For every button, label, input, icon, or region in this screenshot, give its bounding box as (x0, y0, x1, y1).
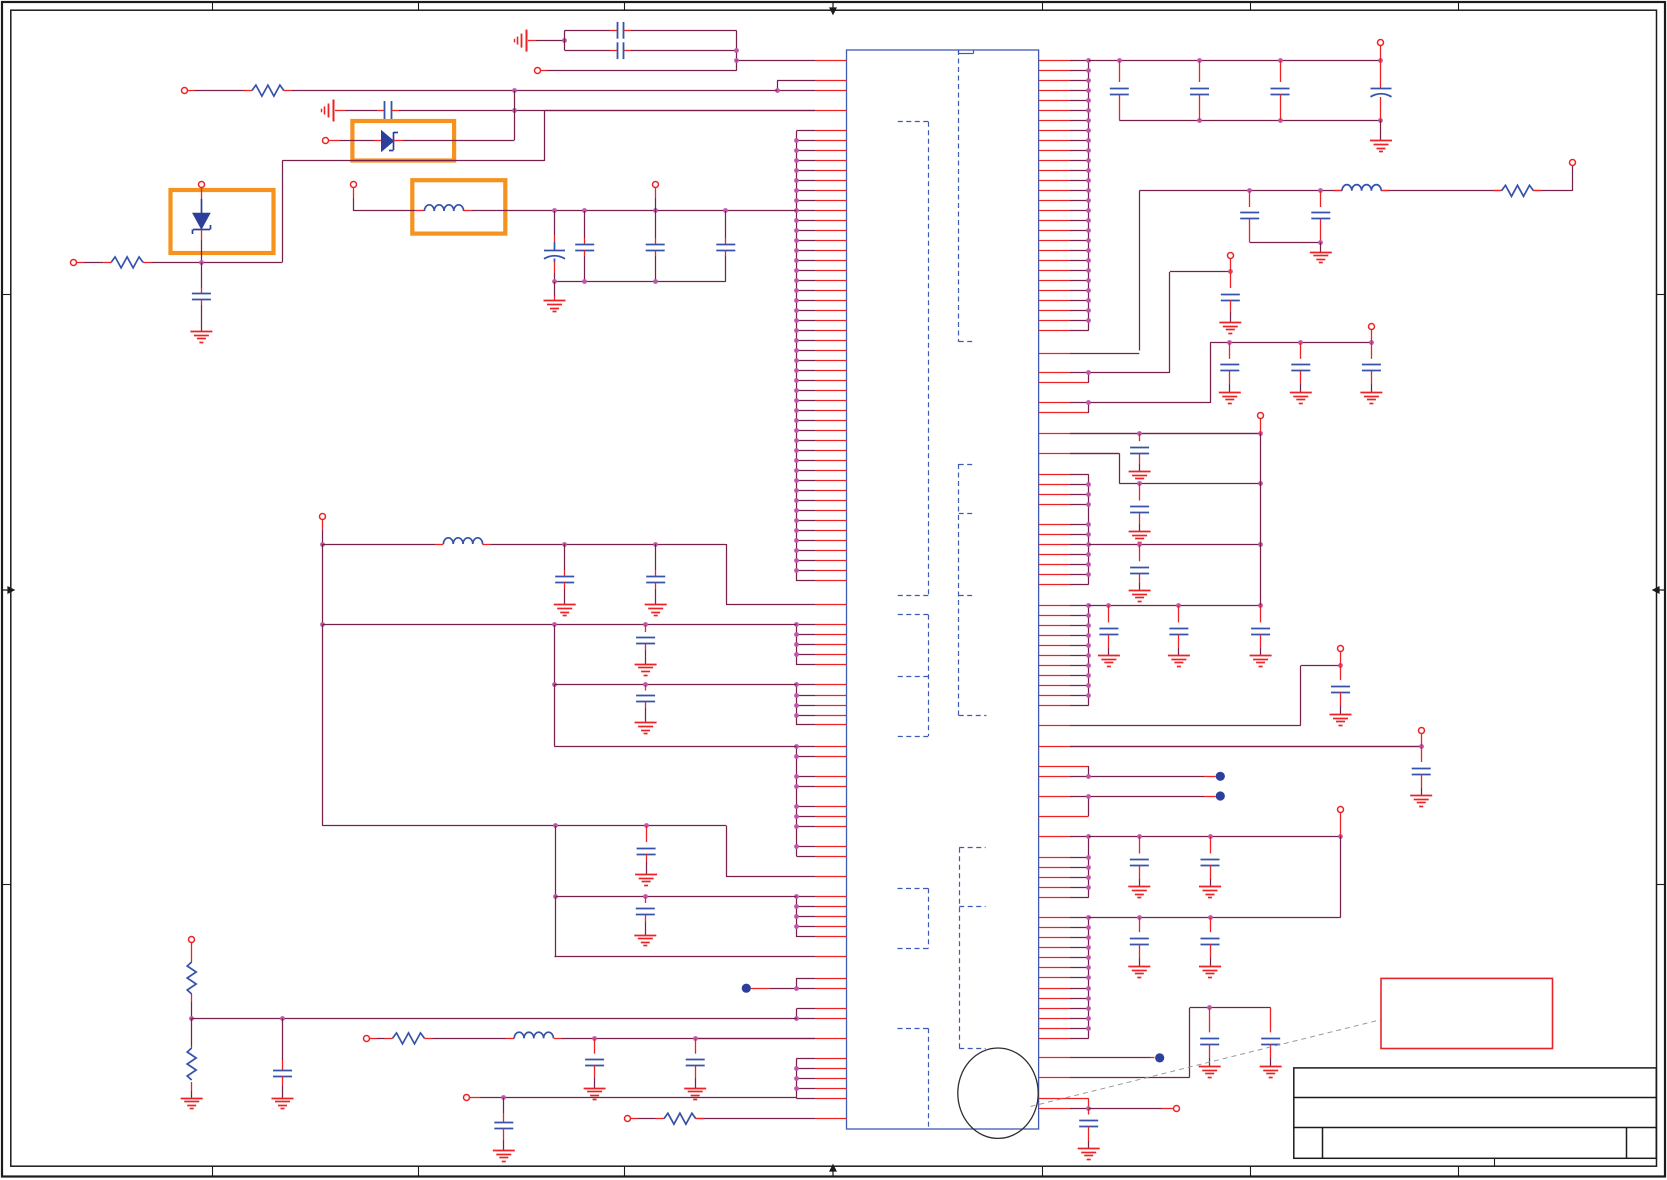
chassis ground symbol CH1 (526, 30, 528, 52)
wire pin P16 drop (655, 187, 657, 198)
U1 left pins L0 top (60/80/90/110) (545, 61, 847, 111)
wire resistor to TVS node (151, 262, 282, 264)
capacitor C25 (1079, 1109, 1098, 1149)
capacitor C16 (1251, 605, 1270, 655)
resistor R6 (vertical) (187, 1018, 196, 1098)
connector pin P4 (1369, 324, 1375, 330)
capacitor C37 (636, 897, 655, 935)
bottom border zone ticks (212, 1166, 214, 1176)
capacitor C11 (1130, 433, 1149, 471)
U1 right pin group R6 (917-1038) with bus (1039, 915, 1091, 1038)
ground symbol G14 (1410, 795, 1432, 797)
top center arrow (830, 3, 836, 14)
wire cap to U1 pin 110 (514, 110, 544, 112)
ground symbol G32 (584, 1088, 606, 1090)
inductor L2 (1334, 190, 1342, 192)
resistor R5 (vertical) (187, 943, 196, 1019)
U1 left single pins with long wires (555, 605, 847, 957)
wire rail net upper (1089, 834, 1343, 839)
capacitor C29 (575, 211, 594, 282)
IC internal dashed divider 2 (middle) (958, 464, 960, 716)
ellipse marker on IC bottom (958, 1048, 1038, 1138)
resistor R2 (1494, 190, 1502, 192)
wire net 1109 with open pin (1086, 1106, 1173, 1111)
connector pin P2 right (1570, 160, 1576, 166)
ground symbol G21 (1078, 1148, 1100, 1150)
connector pin P6 (1338, 646, 1344, 652)
inductor L3 (443, 538, 482, 544)
U1 right pin group R1 (28 pins) with bus (1039, 58, 1091, 330)
connector pin P8 (1338, 807, 1344, 813)
capacitor C6 (1311, 191, 1330, 243)
U1 right pin group R3 (600-690) with bus (1039, 603, 1091, 705)
right border zone ticks (1657, 294, 1666, 296)
connector pin P5 (1258, 413, 1264, 419)
navy node dot A (left bottom) (742, 984, 751, 993)
crystal capacitor lower plates (617, 42, 619, 59)
ground symbol G12 (1250, 655, 1272, 657)
wire net branch 725 (1301, 663, 1343, 725)
wire inductor A to corner (482, 542, 726, 604)
capacitor C13 (1130, 544, 1149, 590)
IC internal dashed divider 3 (lower) (959, 848, 961, 1049)
bottom center arrow (830, 1165, 836, 1176)
top border zone ticks (212, 2, 214, 10)
ground symbol G26 (635, 664, 657, 666)
ground symbol G22 (190, 331, 212, 333)
crystal capacitor upper plates (617, 22, 619, 39)
power rail top right (net to pin J-top) (1089, 58, 1383, 123)
capacitor C33 (646, 544, 665, 605)
wire chassis to crystal (528, 40, 536, 42)
wire net y1098 (469, 1095, 796, 1100)
IC internal dashed divider 1 (top) (958, 50, 960, 342)
wire to ground G23 (554, 282, 556, 296)
ground symbol G19 (1199, 1066, 1221, 1068)
capacitor C38 (273, 1018, 292, 1098)
resistor R3 (187, 85, 292, 96)
wire net A y544 with inductor (320, 542, 443, 547)
ground symbol G25 (645, 604, 667, 606)
connector pin P10 (535, 68, 541, 74)
capacitor C1 (1110, 61, 1129, 121)
resistor R4 (77, 257, 151, 268)
U1 right single pins (1039, 354, 1422, 1109)
polarized capacitor C28 (544, 211, 565, 282)
ground symbol G29 (634, 935, 656, 937)
capacitor C20 (1201, 836, 1220, 887)
leader dashed line to callout (1031, 1020, 1382, 1107)
ground symbol G7 (1129, 471, 1151, 473)
title block outline (1294, 1068, 1657, 1158)
ground symbol under C4 (1380, 120, 1382, 141)
ground symbol G8 (1129, 531, 1151, 533)
connector pin P13 (199, 182, 205, 188)
capacitor C30 (646, 211, 665, 282)
vertical bus net right x1260 (1260, 433, 1262, 605)
IC U1 body outline (847, 50, 1039, 1129)
wire net E y825 long vertical (322, 625, 726, 877)
capacitor C26 series (335, 101, 514, 120)
ground symbol G13 (1330, 714, 1352, 716)
capacitor C12 (1130, 484, 1149, 532)
connector pin P7 (1419, 728, 1425, 734)
connector pin P15 (351, 182, 357, 188)
ground symbol G27 (635, 722, 657, 724)
ground symbol G23 (544, 300, 566, 302)
capacitor C22 (1201, 918, 1220, 967)
U1 left pin pair 1008/1018 (794, 1009, 846, 1021)
wire net G y957 (555, 897, 556, 957)
ground symbol G16 (1199, 886, 1221, 888)
wire resistor to inductor (433, 1038, 507, 1040)
ground symbol G17 (1128, 966, 1150, 968)
U1 left pin pair 978/988 to net stub (758, 978, 847, 991)
wire net C y685 (552, 625, 796, 687)
wire net 450-480 row (1070, 453, 1263, 486)
U1 right pin group R2 (480-580) with bus (1039, 475, 1091, 585)
connector pin P19 (364, 1036, 370, 1042)
ground symbol G11 (1168, 655, 1190, 657)
ground symbol G9 (1129, 590, 1151, 592)
U1 left pin group L5 (746-856) with bus (794, 744, 846, 856)
ground symbol G33 (684, 1088, 706, 1090)
connector pin P14 (71, 260, 77, 266)
wire cap return bus (1250, 242, 1321, 244)
connector pin P17 (320, 514, 326, 520)
wire crystal lower to pin P10 (547, 70, 737, 72)
wire jog net down to TVS row (282, 111, 545, 263)
capacitor C18 (1412, 746, 1431, 796)
capacitor C36 (637, 826, 656, 875)
capacitor C15 (1169, 605, 1188, 655)
title block cell divider left (1322, 1127, 1324, 1158)
wire vertical x514 (514, 91, 516, 140)
navy node dot D (1150, 1057, 1155, 1059)
wire net branch 745 (1070, 744, 1424, 749)
red callout box (1381, 978, 1553, 1048)
navy node dot C (1204, 796, 1216, 798)
ground symbol G20 (1260, 1066, 1282, 1068)
capacitor C7 (1221, 272, 1240, 323)
U1 left pin group L4 (685-725) with bus (794, 682, 846, 725)
highlight box for L1 (412, 180, 505, 233)
ground symbol G2 (1320, 242, 1322, 252)
wire rail right vertical (1340, 836, 1342, 917)
wire net branch 373 (1170, 269, 1233, 373)
title block cell divider right (1626, 1127, 1628, 1158)
wire cap return bus y281 (552, 279, 726, 284)
ground symbol G31 (272, 1098, 294, 1100)
wire inductor to U1 pin row 211 (472, 208, 796, 213)
capacitor C23 (1200, 1008, 1219, 1067)
connector pin P21 (625, 1116, 631, 1122)
capacitor C40 (686, 1038, 705, 1088)
ground symbol G3 (1219, 322, 1241, 324)
highlight box for D2 (171, 190, 274, 253)
capacitor C17 (1331, 666, 1350, 715)
connector pin P3 (1228, 253, 1234, 259)
wire net F y897 (553, 826, 796, 899)
left center arrow (3, 587, 14, 593)
highlight box for D1 (352, 121, 454, 161)
wire inductor to U1 pin 1038 (562, 1036, 815, 1041)
title block row line 2 (1294, 1127, 1657, 1129)
ground symbol G5 (1290, 392, 1312, 394)
connector pin P9 (1174, 1106, 1180, 1112)
ground symbol G10 (1098, 655, 1120, 657)
connector pin P16 (653, 182, 659, 188)
capacitor C31 (716, 211, 735, 282)
crystal loop wires (564, 31, 738, 71)
wire crystal to U1 pin 60 (736, 60, 739, 62)
wire net 540 row (1089, 542, 1263, 547)
IC internal dashed left bracket lower (928, 888, 930, 948)
wire rail net lower (1089, 915, 1341, 920)
wire net 430 row (1070, 431, 1263, 436)
ground symbol G24 (554, 604, 576, 606)
capacitor C9 (1291, 343, 1310, 393)
wire pin to inductor (353, 188, 415, 211)
resistor R7 (370, 1033, 433, 1044)
U1 left bottom pin 1118 wire (815, 1118, 847, 1120)
wire net branch 404 (1210, 340, 1374, 403)
capacitor C41 (494, 1098, 513, 1151)
inductor L1 (415, 205, 472, 211)
capacitor C27 (192, 262, 211, 331)
capacitor C24 (1261, 1008, 1280, 1067)
diode D2 (TVS vertical) (193, 188, 211, 263)
connector pin P11 (182, 88, 188, 94)
U1 right pin group R5 (837-897) with bus (1039, 834, 1091, 897)
inductor L4 (506, 1032, 562, 1038)
wire P17 drop (322, 520, 324, 530)
wire resistor to U1 pins 80/90 (292, 90, 777, 92)
IC internal dashed left column upper (928, 122, 930, 596)
capacitor C3 (1271, 61, 1290, 121)
capacitor C39 (585, 1038, 604, 1088)
wire net y1018 long (189, 1016, 797, 1021)
capacitor C32 (555, 544, 574, 605)
IC top notch marker (958, 50, 960, 54)
title block row line 1 (1294, 1097, 1657, 1099)
wire net VCC filter branch (1139, 166, 1572, 351)
capacitor C35 (636, 685, 655, 723)
connector pin P12 (323, 138, 329, 144)
diode D1 (zener) (328, 131, 514, 151)
polarized capacitor C4 (1371, 61, 1392, 121)
wire net 600 row (1089, 603, 1263, 608)
U1 left pin group L7 (1058-1098) with bus (794, 1059, 846, 1099)
ground symbol G28 (635, 874, 657, 876)
capacitor C10 (1362, 343, 1381, 393)
U1 left pin group L6 (897-937) with bus (794, 894, 846, 937)
capacitor C34 (636, 625, 655, 664)
connector pin P20 (464, 1095, 470, 1101)
ground symbol G30 (181, 1098, 203, 1100)
capacitor C5 (1240, 191, 1259, 243)
capacitor C21 (1130, 918, 1149, 967)
chassis ground symbol CH2 (333, 100, 335, 122)
capacitor C19 (1130, 836, 1149, 887)
wire net to corner 1077 (1190, 1005, 1271, 1077)
title block bottom strip tick (1494, 1158, 1496, 1166)
ground symbol G34 (493, 1150, 515, 1152)
U1 left single pin 1038 wire (815, 1038, 847, 1040)
U1 left pin group L3 (625-665) with bus (794, 622, 846, 665)
ground symbol G6 (1360, 392, 1382, 394)
resistor R8 (631, 1113, 704, 1124)
U1 left pin group L1 (46 pins) with bus (794, 131, 846, 582)
capacitor C8 (1220, 343, 1239, 393)
wire net D y746 (554, 685, 796, 747)
capacitor C2 (1190, 61, 1209, 121)
ground symbol G4 (1219, 392, 1241, 394)
right center arrow (1653, 587, 1664, 593)
wire net B y625 (320, 544, 796, 627)
capacitor C14 (1099, 605, 1118, 655)
connector pin P1 top right (1378, 40, 1384, 46)
IC internal dashed left bracket mid (928, 615, 930, 736)
navy node dot B (1204, 776, 1216, 778)
connector pin P18 (189, 937, 195, 943)
ground symbol G15 (1128, 886, 1150, 888)
left border zone ticks (2, 294, 11, 296)
IC internal dashed left bracket bottom (928, 1028, 930, 1126)
ground symbol G18 (1199, 966, 1221, 968)
